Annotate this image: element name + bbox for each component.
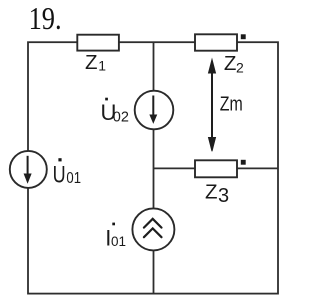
svg-text:1: 1 xyxy=(98,58,106,74)
svg-text:19.: 19. xyxy=(29,1,62,36)
svg-text:02: 02 xyxy=(113,109,129,125)
svg-text:3: 3 xyxy=(218,185,229,207)
svg-text:01: 01 xyxy=(66,170,81,187)
svg-text:2: 2 xyxy=(236,59,244,75)
svg-text:U: U xyxy=(53,161,66,188)
svg-text:01: 01 xyxy=(111,234,126,249)
svg-text:Zm: Zm xyxy=(220,93,243,116)
svg-text:Z: Z xyxy=(205,180,218,203)
svg-text:Z: Z xyxy=(85,51,98,74)
svg-text:Z: Z xyxy=(224,52,237,75)
